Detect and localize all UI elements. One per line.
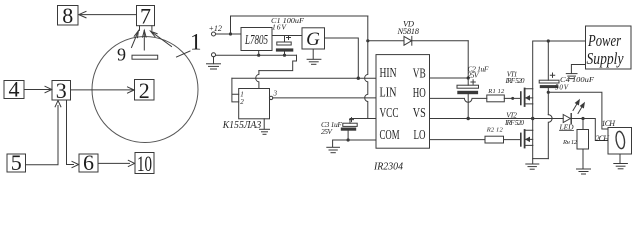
svg-text:2: 2 <box>240 98 244 106</box>
box 8 <box>58 3 79 28</box>
NAND gate K155LA3 <box>239 89 278 119</box>
svg-text:25V: 25V <box>321 127 333 136</box>
junction half-bridge midpoint / VS <box>531 117 534 120</box>
ground below 0V terminal <box>207 57 221 69</box>
HO wire with dip under C2 drop, resistor R1 <box>430 98 487 102</box>
svg-text:VB: VB <box>413 67 426 82</box>
svg-text:16V: 16V <box>272 23 287 32</box>
sample stage 9 (plate) <box>132 55 158 59</box>
LED indicator <box>563 100 584 123</box>
svg-text:7: 7 <box>140 3 151 28</box>
electron gun fan arrows into box 7 <box>132 26 172 50</box>
junction LED cathode / R4 <box>581 117 584 120</box>
junction C1 minus / rail <box>283 54 286 57</box>
svg-text:LO: LO <box>414 128 426 143</box>
junction L7805 gnd / rail <box>257 54 260 57</box>
ground below gate <box>260 119 270 135</box>
svg-text:3: 3 <box>273 90 278 98</box>
svg-text:2: 2 <box>139 78 150 103</box>
svg-text:IRF 520: IRF 520 <box>505 77 525 85</box>
regulator L7805 <box>241 28 272 51</box>
svg-text:Power: Power <box>587 31 621 50</box>
L7805 gnd stub <box>258 51 260 56</box>
capacitor C3 1uF 25V <box>341 118 357 140</box>
svg-text:1: 1 <box>190 30 202 55</box>
svg-text:Supply: Supply <box>587 49 624 68</box>
LO wire and resistor R2 <box>430 139 486 141</box>
box 4 <box>4 77 24 102</box>
svg-text:R2 12: R2 12 <box>486 127 504 134</box>
VT2 drain up to VS line <box>532 119 534 131</box>
generator G <box>302 28 325 50</box>
svg-text:8: 8 <box>62 3 73 28</box>
junction C4 line / 1CH tap <box>547 91 550 94</box>
capacitor C4 100uF 50V <box>539 41 559 115</box>
junction +12 / diode anode <box>366 39 369 42</box>
ground below VT2 <box>526 159 539 170</box>
Power Supply box <box>586 26 632 69</box>
junction C3 minus / COM <box>347 138 350 141</box>
VT2 source to ground node <box>533 145 549 158</box>
oscilloscope box <box>608 128 632 155</box>
scope 1CH wire <box>548 92 608 129</box>
ground at COM <box>327 147 340 152</box>
svg-text:10: 10 <box>137 151 152 176</box>
transistor VT2 IRF520 <box>521 130 533 148</box>
wire 5 up to 3 with arrow <box>26 101 61 165</box>
junction VB / bootstrap <box>467 76 470 79</box>
svg-text:G: G <box>306 29 320 50</box>
wire 3 to 2 with arrow <box>71 87 135 93</box>
svg-text:9: 9 <box>117 45 126 65</box>
box 10 <box>135 151 154 176</box>
HIN net wire: gate inputs / G output / HIN pin <box>232 77 376 79</box>
junction G output / HIN net <box>357 77 360 80</box>
svg-text:6: 6 <box>83 150 94 175</box>
+12 drop to VCC (hops over HIN and LIN wires) <box>365 16 368 119</box>
G output wire down to HIN net <box>325 38 359 78</box>
capacitor C1 100uF 16V <box>276 36 292 56</box>
+12 top rail <box>231 16 368 34</box>
svg-text:1CH: 1CH <box>602 119 617 128</box>
COM wire to ground <box>333 140 376 147</box>
junction C2 minus / VS line <box>467 117 470 120</box>
svg-text:VS: VS <box>413 106 426 121</box>
wire 7 to 8 with arrow <box>79 11 137 17</box>
C4 line hop over VS line, down to ground node <box>548 115 552 159</box>
svg-text:N5818: N5818 <box>397 26 420 36</box>
wire 3 down to 6 with arrow <box>67 100 79 167</box>
svg-text:VCC: VCC <box>380 106 399 121</box>
svg-text:+12: +12 <box>209 24 222 33</box>
box 6 <box>79 150 98 175</box>
capacitor C2 1uF 25V <box>457 80 479 119</box>
supply wire junction to C4 <box>547 39 550 42</box>
resistor R2 12 <box>485 136 504 143</box>
VCC wire and C3 branch <box>350 119 376 124</box>
wire 6 to 10 with arrow <box>98 160 135 166</box>
svg-text:L7805: L7805 <box>244 33 268 48</box>
chamber circle (node 1 vessel) <box>92 37 198 143</box>
svg-text:25V: 25V <box>468 71 480 80</box>
svg-text:HO: HO <box>413 86 426 101</box>
diode VD N5818 (bootstrap) <box>368 36 468 45</box>
svg-text:К155ЛА3: К155ЛА3 <box>222 120 262 131</box>
resistor R4 load <box>577 119 589 169</box>
wire 4 to 3 with arrow <box>24 86 52 92</box>
svg-text:HIN: HIN <box>380 66 397 81</box>
svg-text:LED: LED <box>559 122 575 131</box>
svg-text:IRF 520: IRF 520 <box>504 119 524 127</box>
svg-text:50V: 50V <box>555 83 569 91</box>
VT1 drain up to supply line <box>533 41 586 89</box>
box 5 <box>7 150 26 175</box>
LED cathode wire to scope 2CH <box>572 119 608 141</box>
driver IC IR2304 <box>376 55 430 149</box>
svg-text:COM: COM <box>380 128 400 143</box>
svg-text:5: 5 <box>11 150 22 175</box>
GND rail drop to gate top (with hop over HIN wire) <box>256 55 297 88</box>
wire +12 to L7805 <box>216 33 242 35</box>
VT1 source down to VS line <box>532 104 534 119</box>
VS output line <box>430 118 564 120</box>
svg-text:Rн 12: Rн 12 <box>562 139 578 146</box>
transistor VT1 IRF520 <box>521 89 533 107</box>
label 1 with leader <box>177 51 191 57</box>
+12 input terminal <box>212 32 216 36</box>
box 3 <box>52 78 71 103</box>
resistor R1 12 <box>487 95 505 102</box>
ground below scope <box>614 154 628 169</box>
svg-text:3: 3 <box>56 78 67 103</box>
gate input drop to pins 1,2 <box>232 78 239 102</box>
L7805 output wire to G <box>272 35 302 37</box>
GND rail <box>216 54 297 56</box>
svg-text:IR2304: IR2304 <box>373 161 403 173</box>
junction +12 rail <box>229 32 232 35</box>
svg-text:LIN: LIN <box>380 86 397 101</box>
ground below R4 <box>577 169 591 174</box>
LIN wire from gate output pin3 <box>273 97 376 99</box>
box 7 <box>137 3 155 28</box>
VB wire <box>430 77 469 79</box>
0V terminal <box>212 53 216 57</box>
junction dot on VT1 gate wire <box>511 97 514 100</box>
ground below G <box>307 49 321 64</box>
bootstrap drop to C2 <box>467 41 469 85</box>
svg-text:4: 4 <box>9 77 20 102</box>
box 2 <box>135 78 155 103</box>
Power Supply lower terminal to ground <box>566 65 585 79</box>
svg-text:R1 12: R1 12 <box>487 88 505 95</box>
